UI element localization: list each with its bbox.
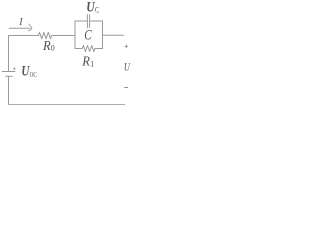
svg-text:OC: OC bbox=[30, 70, 37, 79]
svg-text:R: R bbox=[81, 55, 90, 70]
svg-text:0: 0 bbox=[51, 44, 55, 53]
svg-text:U: U bbox=[124, 62, 130, 74]
svg-text:R: R bbox=[42, 39, 51, 54]
svg-text:1: 1 bbox=[90, 60, 94, 69]
svg-text:I: I bbox=[18, 17, 23, 28]
svg-text:C: C bbox=[95, 4, 100, 14]
svg-text:C: C bbox=[84, 27, 92, 43]
